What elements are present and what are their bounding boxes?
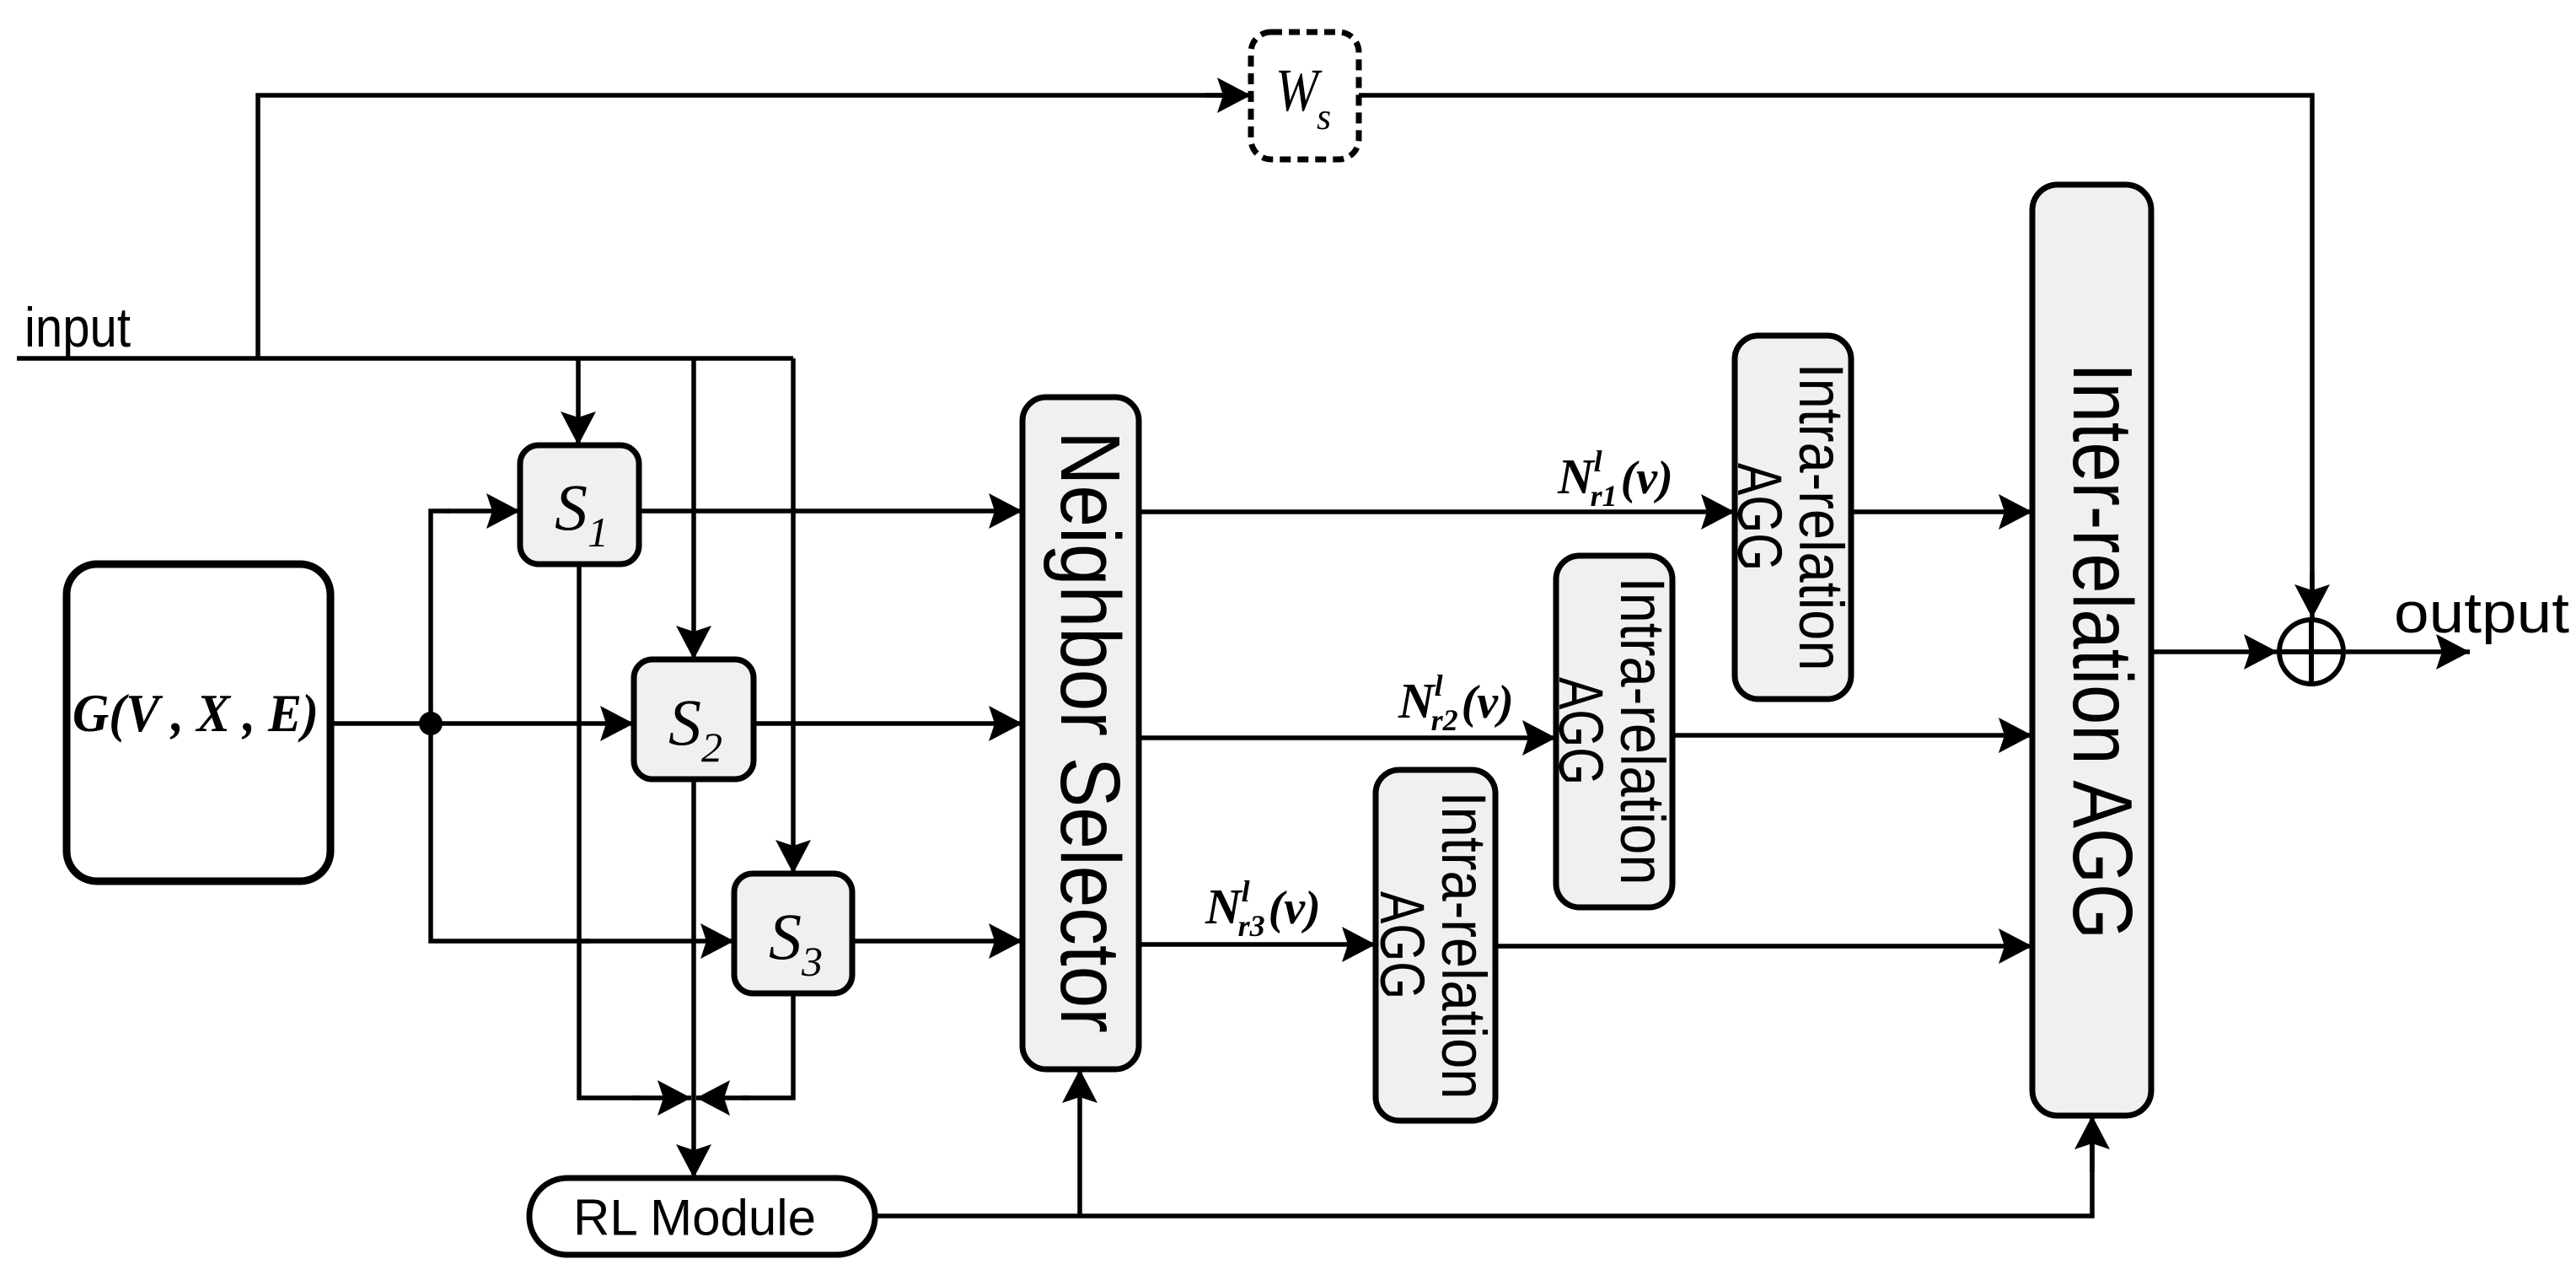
arrow into plus-circle top: [2310, 573, 2315, 618]
svg-text:Neighbor Selector: Neighbor Selector: [1043, 431, 1137, 1033]
svg-text:Nlr1(v): Nlr1(v): [1557, 444, 1673, 513]
svg-text:input: input: [24, 296, 131, 358]
svg-text:Nlr2(v): Nlr2(v): [1398, 669, 1514, 737]
svg-text:output: output: [2394, 581, 2569, 645]
wire node branch down to S3: [431, 724, 590, 941]
svg-text:Nlr3(v): Nlr3(v): [1205, 874, 1321, 943]
wire NS out row3 to Intra3: [1136, 942, 1376, 947]
svg-text:Intra-relation: Intra-relation: [1607, 578, 1677, 885]
box Intra-relation AGG 3: [1376, 770, 1495, 1121]
svg-text:Intra-relation: Intra-relation: [1429, 792, 1499, 1100]
box S1: [520, 445, 639, 564]
box Neighbor Selector: [1022, 397, 1139, 1069]
wire input horizontal: [17, 356, 793, 361]
svg-text:Intra-relation: Intra-relation: [1786, 363, 1856, 671]
box Intra-relation AGG 1: [1735, 336, 1851, 699]
wire RL branch up into Neighbor Selector bottom: [1077, 1069, 1082, 1216]
wire S2 out to Neighbor Selector: [754, 721, 1022, 726]
box RL Module: [529, 1178, 875, 1255]
wire Inter out to plus-circle: [2151, 649, 2278, 654]
svg-text:s: s: [1317, 96, 1331, 137]
wire S3 out to Neighbor Selector: [852, 939, 1022, 944]
box Inter-relation AGG: [2032, 185, 2151, 1116]
wire RL Module output: [875, 1134, 2092, 1216]
wire output arrow: [2346, 649, 2470, 654]
wire drop to S1: [576, 358, 581, 445]
arrow into Ws: [1205, 93, 1251, 98]
svg-text:AGG: AGG: [1367, 891, 1437, 999]
box Intra-relation AGG 2: [1556, 556, 1672, 907]
svg-text:RL Module: RL Module: [573, 1190, 816, 1246]
svg-text:G(V , X , E): G(V , X , E): [72, 683, 319, 743]
wire input up-branch to Ws: [258, 95, 1236, 358]
wire S2 down into RL Module: [691, 779, 696, 1178]
svg-text:AGG: AGG: [1546, 677, 1616, 785]
wire Ws output top to right corner: [1359, 95, 2312, 603]
wire NS out row2 to Intra2: [1136, 735, 1556, 740]
wire node branch up to S1: [431, 511, 450, 724]
box S3: [734, 874, 852, 993]
wire NS out row1 to Intra1: [1136, 509, 1735, 514]
wire Intra2 out to Inter: [1672, 733, 2032, 738]
wire S3 down to RL junction: [742, 993, 793, 1098]
wire G out to S2: [330, 721, 634, 726]
wire S1 out to Neighbor Selector: [639, 508, 1022, 514]
wire drop to S2: [691, 358, 696, 659]
arrow RL into Inter-relation AGG bottom: [2090, 1116, 2095, 1172]
wire drop to S3: [791, 358, 796, 874]
box G(V,X,E): [67, 564, 330, 881]
node junction dot: [419, 712, 443, 735]
box Ws dashed: [1251, 32, 1359, 159]
box S2: [634, 659, 754, 779]
svg-text:Inter-relation AGG: Inter-relation AGG: [2055, 363, 2149, 939]
wire Intra1 out to Inter: [1851, 509, 2032, 514]
svg-text:AGG: AGG: [1725, 463, 1795, 571]
plus-circle adder: [2279, 620, 2343, 684]
wire S1 down to RL junction: [579, 564, 641, 1098]
wire Intra3 out to Inter: [1495, 944, 2032, 949]
svg-text:W: W: [1275, 56, 1323, 124]
